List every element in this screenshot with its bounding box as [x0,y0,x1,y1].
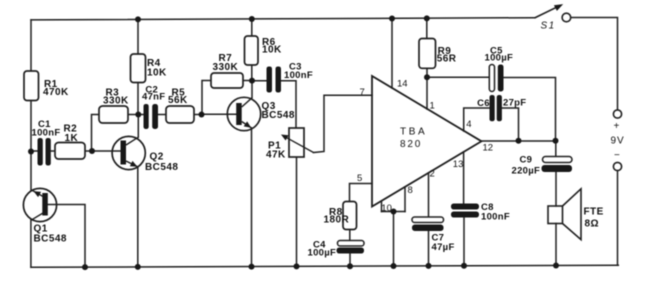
junction ground speaker [553,263,559,269]
transistor Q1 BC548 [23,188,56,221]
junction ground Q1 base [82,264,88,270]
wire C1 right plate to R2 [49,150,55,152]
resistor R4 10K [131,54,146,83]
wire Q1 base to ground rail [48,205,85,268]
resistor R8 180R [343,202,357,230]
svg-text:1K: 1K [65,133,79,144]
wire pin 13 down to C8 [463,152,465,204]
svg-text:−: − [614,150,620,161]
wire node C to C3 left plate [252,80,267,82]
wire pin 1 to node D [426,77,428,109]
wire P1 bottom to ground rail [296,157,298,266]
svg-text:100nF: 100nF [32,128,61,139]
wire Q1 collector to ground rail [30,220,32,267]
wire R6 bottom to node C [251,65,253,81]
wire node B2 up to R7 left [202,81,211,115]
svg-text:1: 1 [430,101,435,112]
wire pin8/10 node to ground rail [393,212,395,267]
wire left column top rail to R1 [30,20,32,71]
speaker FTE 8 ohm [548,189,581,240]
junction ground C7 [426,263,432,269]
wire top supply rail [31,18,535,20]
resistor R7 330K [211,73,243,88]
junction C1 node on R1 wire [28,149,34,155]
label Q3 designator [262,101,295,121]
label C8 value [481,202,510,223]
svg-text:C9: C9 [520,155,533,166]
transistor Q3 BC548 [227,97,260,130]
capacitor C3 100nF [267,67,282,93]
wire C3 right plate to P1 top [281,81,296,128]
label U1 TBA 820 [400,127,427,151]
potentiometer P1 47K [281,128,314,157]
svg-text:180R: 180R [324,215,350,226]
resistor R2 1K [55,143,85,160]
label P1 value [266,141,286,161]
wire Q2 collector up to node B1 [137,115,139,138]
wire R4 bottom to node B1 [137,83,139,115]
svg-text:10: 10 [381,203,392,214]
junction top rail R9 [424,15,430,21]
wire Q3 emitter to ground rail [251,128,253,267]
label C6 value [477,97,526,109]
svg-text:14: 14 [397,79,408,90]
junction top rail pin14 [389,16,395,22]
label C3 value [284,62,313,82]
wire pin 10 down [381,201,383,212]
label C7 value [432,233,455,254]
label R6 value [262,37,282,56]
svg-text:BC548: BC548 [262,110,295,121]
switch S1 [535,4,571,22]
svg-text:2: 2 [430,169,435,180]
svg-text:47nF: 47nF [142,92,165,103]
wire Q3 collector up to node C [251,81,253,98]
svg-text:820: 820 [400,139,422,150]
junction node B2 R5/R7/Q3 [199,112,205,118]
wire pin 10 to pin 8 connector [382,211,406,213]
label R5 value [168,88,188,107]
svg-text:+: + [614,121,620,132]
wire C6 right plate down to node E1 [502,108,519,141]
svg-text:Q2: Q2 [150,152,164,163]
capacitor C2 47nF [144,104,159,129]
label R1 value [43,79,69,98]
label R4 value [147,58,167,78]
svg-text:8Ω: 8Ω [585,219,599,230]
label R8 value [324,207,350,226]
svg-text:S1: S1 [541,21,556,32]
svg-text:100µF: 100µF [485,52,514,63]
wire node D to C5 left plate [427,76,489,78]
svg-text:56R: 56R [437,54,457,65]
capacitor C9 220uF electrolytic [542,157,573,173]
wire speaker to ground rail [555,224,557,266]
svg-text:13: 13 [453,159,464,170]
junction ground P1 [294,263,300,269]
svg-text:330K: 330K [103,95,129,106]
wire R6 top lead [251,19,253,36]
label C9 value [512,155,541,177]
label R3 value [103,88,129,107]
wire switch S1 to battery plus [570,18,617,111]
wire R9 top lead [426,18,428,38]
resistor R3 330K [99,106,128,123]
op-amp U1 TBA820 [372,76,482,207]
wire battery minus to ground rail [617,171,619,266]
wire C9 bottom to speaker [555,173,557,207]
svg-text:470K: 470K [43,87,69,98]
wire R2 right to node A [85,150,92,152]
junction node C R6/R7/C3/Q3 [249,78,255,84]
junction ground pin8/10 [391,263,397,269]
svg-text:12: 12 [483,143,494,154]
junction ground Q2 emitter [135,264,141,270]
wire pin 4 to C6 left plate [464,108,490,131]
svg-text:220µF: 220µF [512,166,541,177]
label C5 value [485,46,514,64]
capacitor C7 47uF electrolytic [412,217,444,231]
wire bottom ground rail [31,265,618,267]
wire C5 right plate to output node E2 [504,78,556,141]
wire R7 right to node C [243,80,252,82]
label R7 value [213,53,239,73]
svg-text:5: 5 [357,173,362,184]
svg-text:BC548: BC548 [145,162,178,173]
resistor R5 56K [166,106,194,123]
label C1 value [32,119,61,139]
wire R4 top lead [137,19,139,54]
svg-text:BC548: BC548 [34,234,67,245]
junction node E1 C6 drop on output [516,138,522,144]
svg-text:56K: 56K [168,95,188,106]
junction node A R2/R3/Q2 [89,148,95,154]
label Q1 designator [34,224,67,245]
wire R9 bottom to node D [426,68,428,77]
svg-text:100µF: 100µF [308,248,337,259]
label R9 value [437,46,457,65]
svg-text:C6: C6 [477,98,490,109]
capacitor C4 100uF electrolytic [337,241,365,254]
wire C1 node to C1 left plate [31,150,38,152]
label C4 value [308,240,337,259]
svg-text:27pF: 27pF [503,97,526,108]
svg-text:10K: 10K [262,44,282,55]
capacitor C8 100nF [451,204,479,218]
wire R1 bottom to C1 node [30,101,32,152]
svg-text:330K: 330K [213,62,239,73]
svg-text:4: 4 [466,119,471,130]
label Q2 designator [145,152,178,174]
svg-text:10K: 10K [147,67,167,78]
wire R8 bottom to C4 [349,230,351,241]
svg-text:9V: 9V [611,136,625,147]
wire pin 14 to top rail [391,19,393,89]
resistor R9 56R [419,39,436,69]
svg-text:7: 7 [360,87,365,98]
wire pin 2 down to C7 [428,173,430,217]
svg-text:8: 8 [408,185,413,196]
svg-text:TBA: TBA [400,127,427,138]
wire C1 node down to Q1 emitter [30,152,32,191]
capacitor C1 100nF [38,138,51,166]
svg-text:47K: 47K [266,150,286,161]
wire pin 12 output line [482,140,557,142]
junction pin8/10 tie [391,209,397,215]
battery B1 9V terminals [613,110,621,171]
wire node A up to R3 left [92,115,100,152]
wire C2 right to R5 [158,114,166,116]
capacitor C5 100uF electrolytic [489,65,503,92]
junction ground Q3 emitter [249,264,255,270]
wire pin 8 down [404,187,406,212]
junction ground C4 [347,263,353,269]
svg-text:100nF: 100nF [481,212,510,223]
wire P1 wiper riser to pin 7 [314,95,373,152]
junction node B1 R3/R4/C2/Q2 [135,112,141,118]
wire R3 right to node B1 [128,114,144,116]
wire C7 bottom to ground rail [428,231,430,266]
wire node E2 down to C9 [555,141,557,157]
junction top rail R4 [135,16,141,22]
label R2 value [64,124,79,145]
resistor R6 10K [245,36,259,65]
transistor Q2 BC548 [112,136,145,169]
wire R5 right to node B2 [194,114,202,116]
wire C4 bottom to ground rail [349,254,351,267]
wire node A to Q2 base [92,150,121,152]
wire node B2 to Q3 base [202,113,237,115]
label FTE value [584,207,604,230]
junction top rail R6 [249,16,255,22]
svg-text:100nF: 100nF [284,70,313,81]
wire Q2 emitter to ground rail [137,167,139,267]
junction ground C8 [461,263,467,269]
wire C8 bottom to ground rail [463,218,465,266]
junction node D R9/C5/pin1 [424,74,430,80]
svg-text:47µF: 47µF [432,242,455,253]
svg-text:FTE: FTE [584,207,604,218]
capacitor C6 27pF [490,95,502,121]
resistor R1 470K [24,71,39,101]
wire pin 5 to R8 top [350,184,373,202]
junction node E2 C5/C9 on output [553,138,559,144]
label C2 value [142,84,165,102]
